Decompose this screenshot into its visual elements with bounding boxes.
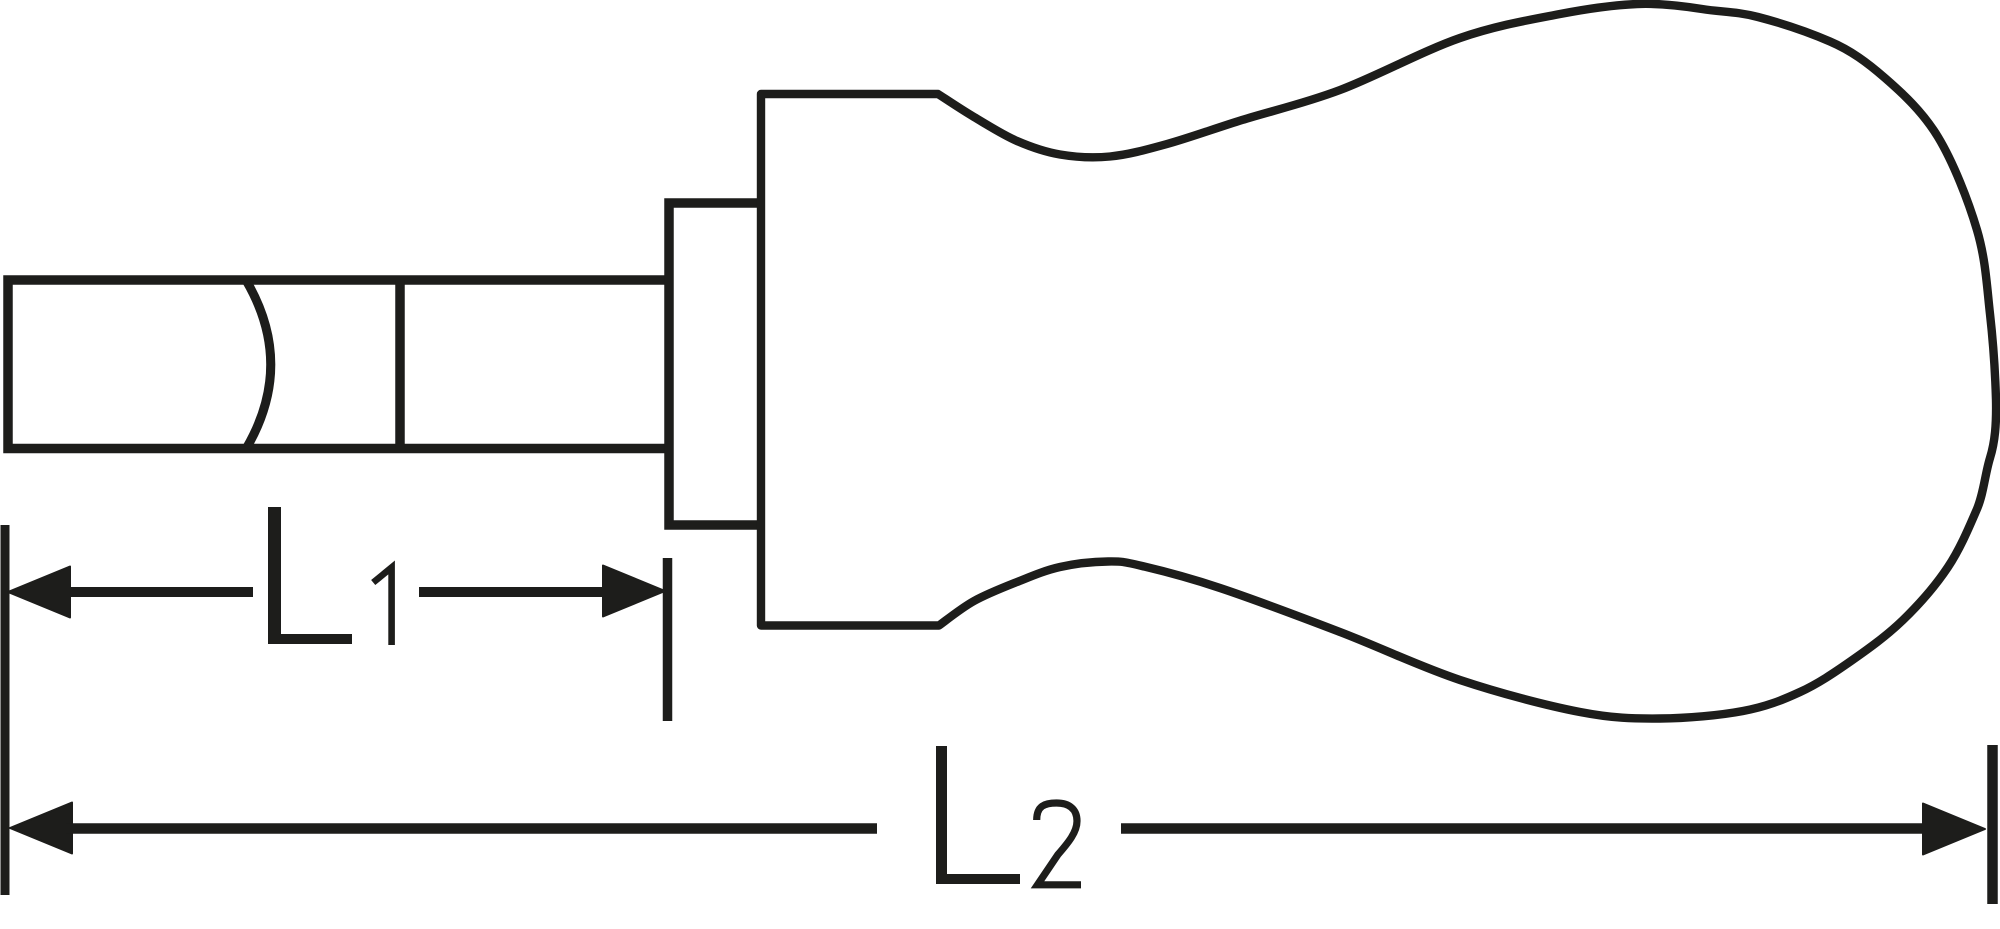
extension line at blade tip (left, shared by L1 and L2)	[1, 525, 10, 895]
handle outline	[761, 4, 1996, 719]
dimension L1: left arrowhead	[8, 567, 70, 618]
label L (of L2)	[936, 746, 1020, 884]
blade (flat screwdriver blade outline)	[8, 280, 669, 449]
dimension L1: line right segment	[419, 587, 610, 597]
label L (of L1)	[268, 507, 352, 644]
ferrule (collar)	[669, 203, 761, 525]
dimension L2: right arrowhead	[1923, 804, 1985, 855]
dimension L2: line right segment	[1121, 823, 1929, 834]
extension line at handle end (right end of L2)	[1987, 745, 1998, 904]
label subscript 2 (of L2)	[1037, 803, 1081, 885]
dimension L2: left arrowhead	[10, 803, 72, 854]
extension line at blade end (right end of L1)	[663, 558, 673, 721]
dimension L1: right arrowhead	[603, 566, 665, 617]
blade tip grind arc	[247, 281, 271, 448]
blade-to-shank joint line	[395, 280, 405, 449]
dimension L1: line left segment	[64, 587, 253, 597]
label subscript 1 (of L1)	[373, 568, 391, 646]
dimension L2: line left segment	[66, 823, 877, 834]
